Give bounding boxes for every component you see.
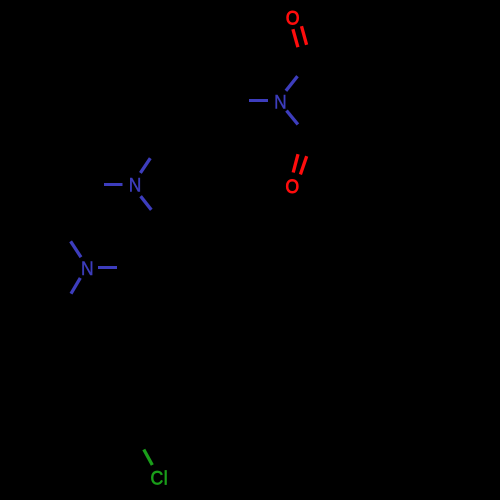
bond C13-Cl1 (Cl half, up-left from label) [144, 450, 153, 466]
svg-text:O: O [286, 175, 300, 197]
svg-text:N: N [274, 90, 287, 112]
bond N2-C3 (N half, down-right) [287, 111, 298, 125]
svg-text:N: N [129, 174, 142, 196]
bond N4-C12 benzyl (N half, down-left) [71, 278, 80, 294]
bond C1=O1 double bond, left line (O half) [293, 29, 298, 47]
bond N3-C9 ring (N half, down-right) [141, 196, 152, 210]
bond N2-C4 chain (N half, left) [249, 99, 268, 102]
bond C3=O2 double bond, right line (O half) [300, 156, 306, 174]
bond N3-C7 chain (N half, up-right) [140, 158, 150, 173]
svg-text:O: O [286, 6, 300, 28]
bond N4-C10 ring (N half, up-left) [71, 241, 81, 257]
bond N4-C11 ring (N half, right) [98, 266, 117, 269]
bond C3=O2 double bond, left line (O half) [293, 154, 298, 172]
svg-text:N: N [81, 257, 94, 279]
svg-text:Cl: Cl [150, 467, 168, 489]
bond C1=O1 double bond, right line (O half) [302, 26, 307, 45]
bond N3-C8 ring (N half, left) [104, 183, 123, 186]
bond N2-C1 (N half, up-right) [286, 76, 298, 91]
